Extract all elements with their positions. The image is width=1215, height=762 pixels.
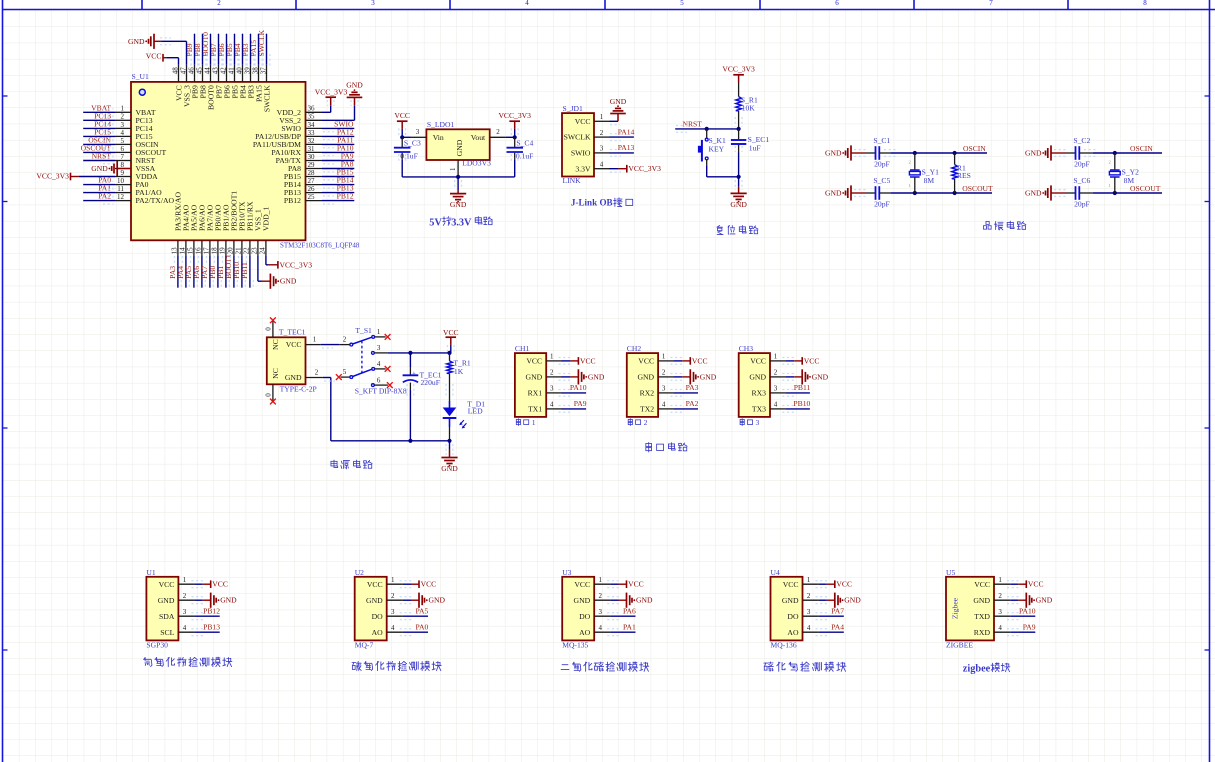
capacitor S_C3 0.1uF [394,128,421,177]
capacitor S_C1 20pF [866,136,896,169]
svg-text:3.3V: 3.3V [451,217,472,228]
svg-text:4: 4 [377,360,381,368]
power VCC at CH1 pin 1 [559,356,596,365]
svg-text:GND: GND [844,596,861,605]
wire + net label PA13 (J-Link pin 3) [610,143,635,156]
svg-text:NC: NC [271,368,280,379]
svg-text:OSCOUT: OSCOUT [1130,184,1161,193]
svg-text:1: 1 [121,105,125,113]
svg-text:S_C4: S_C4 [516,138,533,147]
wire + net label PA9 at CH1 pin 4 [559,399,587,412]
module U3 body (MQ-135) [562,577,594,641]
MCU pin 9 (VDDA) left [115,169,158,181]
J-Link pin 2 SWCLK [564,129,610,142]
wire + net label VBAT (MCU left pin 1) [83,103,115,115]
power VCC_3V3 at MCU pin 36 VDD_2 [315,88,348,113]
wire + net label PB1 (MCU bottom) [216,256,229,288]
svg-text:6: 6 [377,376,381,384]
MCU pin PB10/TX bottom [235,201,247,256]
svg-text:4: 4 [599,624,603,632]
power VCC_3V3 above R1 (reset) [722,65,755,97]
U2 pin 3 DO [372,608,403,621]
power VCC_3V3 at MCU pin 24 VDD_1 [266,256,312,269]
MCU pin 5 (OSCIN) left [115,137,159,149]
title reset circuit [717,225,758,234]
svg-text:U5: U5 [946,568,955,577]
svg-text:TXD: TXD [974,612,990,621]
MCU pin 6 (OSCOUT) left [115,145,167,157]
svg-text:U4: U4 [771,568,780,577]
svg-text:VCC: VCC [575,117,591,126]
wire + net label PB13 at U1 pin 4 [191,623,220,636]
svg-text:DO: DO [787,612,799,621]
svg-text:3: 3 [371,0,375,7]
svg-text:GND: GND [610,97,627,106]
svg-text:19: 19 [219,247,227,255]
svg-text:20pF: 20pF [1074,200,1090,209]
svg-text:GND: GND [1025,149,1042,158]
svg-text:S_KFT DIP-8X8: S_KFT DIP-8X8 [355,387,407,396]
svg-text:3: 3 [377,344,381,352]
svg-text:VCC_3V3: VCC_3V3 [36,171,69,180]
svg-text:13: 13 [171,247,179,255]
svg-text:4: 4 [600,161,604,169]
wire + net label PA0 (MCU left pin 10) [83,176,115,188]
svg-text:1: 1 [774,353,778,361]
svg-text:DO: DO [579,612,591,621]
crystal circuit 2: ground GND left of S_C2 [1025,145,1066,160]
MCU pin 7 (NRST) left [115,153,155,165]
MCU pin PB6 top [219,65,231,99]
svg-text:1uF: 1uF [749,143,761,152]
wire + net label PA10 at U5 pin 3 [1007,607,1036,620]
svg-text:1: 1 [550,353,554,361]
svg-text:1: 1 [391,576,395,584]
svg-text:20pF: 20pF [1074,160,1090,169]
svg-text:3: 3 [662,385,666,393]
svg-text:GND: GND [91,164,108,173]
svg-text:41: 41 [227,67,235,75]
MCU pin PB14 right [284,177,322,189]
title crystal circuit [983,221,1025,230]
wire + net label PA6 (MCU bottom) [192,256,205,288]
U4 pin 4 AO [787,624,818,637]
wire + net label NRST (MCU left pin 7) [83,152,115,164]
svg-text:3: 3 [391,608,395,616]
MCU pin 8 (VSSA) left [115,161,156,173]
wire + net label PB4 (MCU top) [233,34,246,66]
power VCC at CH3 pin 1 [782,356,819,365]
title H2S detection module [764,662,846,671]
wire + net label PA15 (MCU top) [249,34,262,66]
wire + net label PA1 (MCU left pin 11) [83,184,115,196]
wire + net label PA4 at U4 pin 4 [816,623,845,636]
svg-text:PB10: PB10 [793,399,810,408]
svg-text:GND: GND [730,200,747,209]
svg-text:20pF: 20pF [874,160,890,169]
ground GND at U5 pin 2 [1007,593,1053,608]
svg-text:TX3: TX3 [752,405,766,414]
svg-text:2: 2 [343,336,347,344]
wire OSCOUT net [890,191,992,195]
ground GND below reset [730,175,747,209]
U4 pin 1 VCC [783,576,819,589]
svg-text:zigbee: zigbee [963,663,991,674]
svg-text:GND: GND [812,372,829,381]
wire + net label PB5 (MCU top) [225,34,238,66]
ground GND at CH3 pin 2 [782,369,828,384]
ground GND at U1 pin 2 [191,593,237,608]
MCU pin 4 (PC15) left [115,129,153,141]
push button S_K1 KEY [698,129,739,177]
svg-text:LINK: LINK [563,176,582,185]
svg-text:VCC: VCC [836,580,852,589]
svg-text:PA5: PA5 [415,607,428,616]
svg-text:PA2/TX/AO: PA2/TX/AO [136,196,175,205]
wire + net label PA6 at U3 pin 3 [607,607,636,620]
svg-text:SWIO: SWIO [571,149,591,158]
svg-text:1: 1 [998,576,1002,584]
CH3 pin 1 VCC [750,353,785,366]
svg-text:2: 2 [662,369,666,377]
svg-text:3: 3 [774,385,778,393]
wire + net label PB7 (MCU top) [209,34,222,66]
svg-text:PB12: PB12 [284,196,301,205]
wire Vout node [506,135,517,139]
svg-text:1: 1 [183,576,187,584]
svg-text:TX1: TX1 [528,405,542,414]
MCU pin PB5 top [227,65,239,99]
svg-text:T_S1: T_S1 [355,326,372,335]
svg-text:3: 3 [600,145,604,153]
wire LDO ground rail [402,175,515,191]
svg-text:47: 47 [179,67,187,75]
wire + net label PC13 (MCU left pin 2) [83,111,115,123]
svg-text:+: + [412,370,416,377]
svg-text:2: 2 [496,128,500,136]
svg-text:PA3: PA3 [686,383,699,392]
MCU pin PA10/RX right [271,145,322,157]
svg-text:36: 36 [308,105,316,113]
svg-text:11: 11 [117,185,124,193]
svg-text:2: 2 [998,592,1002,600]
svg-text:GND: GND [700,372,717,381]
svg-text:TX2: TX2 [640,405,654,414]
svg-text:VCC: VCC [580,356,596,365]
wire + net label PB11 (MCU bottom) [240,256,253,288]
svg-text:20pF: 20pF [874,200,890,209]
svg-text:4: 4 [662,401,666,409]
svg-text:17: 17 [203,247,211,255]
U1 pin 4 SCL [160,624,194,637]
power VCC above T_R1 [443,328,459,353]
wire TEC1 VCC to switch [321,345,339,348]
svg-text:VCC: VCC [443,328,459,337]
svg-text:44: 44 [203,67,211,75]
MCU pin PA5/AO bottom [187,204,199,256]
svg-text:VCC: VCC [638,357,654,366]
wire + net label PB3 (MCU top) [241,34,254,66]
J-Link pin 1 VCC [575,113,610,126]
svg-text:40: 40 [235,67,243,75]
MCU pin 2 (PC13) left [115,113,153,125]
U3 pin 1 VCC [574,576,610,589]
MCU pin PB3 top [243,65,255,99]
U3 pin 2 GND [574,592,611,605]
svg-text:33: 33 [308,129,316,137]
capacitor S_C6 20pF [1066,176,1093,209]
svg-text:S_C2: S_C2 [1073,136,1090,145]
svg-text:VCC: VCC [146,51,162,60]
svg-text:U3: U3 [562,568,571,577]
svg-text:21: 21 [235,247,243,255]
CH2 pin 4 TX2 [640,401,673,414]
svg-text:VCC: VCC [1028,580,1044,589]
U5 pin 4 RXD [974,624,1010,637]
wire + net label PB15 (MCU right) [322,168,354,180]
MCU pin PB12 right [284,193,322,205]
MCU pin PB7 top [211,65,223,99]
svg-text:VCC: VCC [628,580,644,589]
crystal S_Y1 8M [909,153,940,193]
MCU pin PA6/AO bottom [195,204,207,256]
svg-text:3: 3 [183,608,187,616]
MCU pin 1 (VBAT) left [115,105,156,117]
svg-text:GND: GND [526,373,543,382]
svg-text:VCC_3V3: VCC_3V3 [280,260,313,269]
svg-text:RXD: RXD [974,628,991,637]
svg-text:S_C5: S_C5 [873,176,890,185]
svg-text:PA7: PA7 [831,607,844,616]
svg-text:6: 6 [121,145,125,153]
ground GND at U3 pin 2 [607,593,653,608]
wire + net label PB13 (MCU right) [322,184,354,196]
U2 pin 4 AO [372,624,403,637]
wire + net label OSCOUT (MCU left pin 6) [81,144,115,156]
svg-text:3: 3 [599,608,603,616]
svg-text:PA1: PA1 [623,623,636,632]
svg-text:8M: 8M [1124,176,1135,185]
MCU pin PA15 top [251,65,263,102]
power VCC at U1 pin 1 [191,580,228,589]
svg-text:SWCLK: SWCLK [257,29,266,56]
wire VCC node to Vin [400,135,410,139]
svg-text:43: 43 [211,67,219,75]
svg-text:VCC: VCC [783,580,799,589]
svg-text:4: 4 [183,624,187,632]
CH2 pin 3 RX2 [640,385,674,398]
svg-text:4: 4 [121,129,125,137]
TEC1 bottom pin 0 no-connect [264,384,276,404]
svg-text:PA13: PA13 [618,143,635,152]
svg-text:VDD_1: VDD_1 [262,207,271,231]
svg-text:VCC: VCC [286,340,302,349]
svg-text:32: 32 [308,137,316,145]
LDO pin 3 Vin [411,128,427,137]
MCU pin 10 (PA0) left [115,177,149,189]
svg-text:GND: GND [825,189,842,198]
svg-text:1: 1 [600,113,604,121]
wire + net label SWCLK (MCU top) [257,29,270,66]
svg-text:GND: GND [973,596,990,605]
wire + net label SWIO (MCU right) [322,120,354,132]
ground GND at MCU pin 8 VSSA [91,161,131,176]
TEC1 pin 1 VCC [306,336,321,345]
svg-text:12: 12 [117,193,125,201]
ground GND at MCU pin 35 VSS_2 [322,81,363,121]
svg-text:18: 18 [211,247,219,255]
svg-text:GND: GND [429,596,446,605]
serial connector CH2 body [627,353,658,417]
MCU pin VCC top [171,65,183,101]
svg-text:8: 8 [121,161,125,169]
svg-text:7: 7 [989,0,993,7]
svg-text:SWCLK: SWCLK [262,85,271,112]
svg-text:KEY: KEY [709,144,725,153]
svg-text:34: 34 [308,121,316,129]
svg-text:38: 38 [251,67,259,75]
svg-text:GND: GND [1025,189,1042,198]
MCU pin PA9/TX right [276,153,322,165]
label CH1 (Chinese) [516,418,535,427]
svg-text:LED: LED [468,407,483,416]
svg-text:37: 37 [259,67,267,75]
power VCC at MCU pin 48 [146,51,179,64]
module U2 body (MQ-7) [355,577,387,641]
capacitor S_C4 0.1uF [507,128,534,177]
module U1 body (SGP30) [146,577,178,641]
label CH3 (Chinese) [740,418,759,427]
svg-text:GND: GND [128,37,145,46]
power VCC_3V3 above C4 [498,111,531,137]
svg-text:PB12: PB12 [203,607,220,616]
MCU pin PB15 right [284,169,322,181]
svg-text:RES: RES [957,171,971,180]
svg-text:46: 46 [187,67,195,75]
MCU pin 11 (PA1/AO) left [115,185,162,197]
svg-text:3: 3 [121,121,125,129]
MCU pin 12 (PA2/TX/AO) left [115,193,175,205]
MCU orientation circle [139,89,145,95]
svg-text:SCL: SCL [160,628,174,637]
U4 pin 2 GND [782,592,819,605]
wire + net label PA14 (J-Link pin 2) [610,127,635,140]
ground GND at CH2 pin 2 [670,369,716,384]
svg-text:16: 16 [195,247,203,255]
power VCC above C3 [394,111,410,137]
TEC1 pin names [271,339,302,382]
U3 pin 4 AO [579,624,610,637]
svg-text:5: 5 [343,368,347,376]
svg-text:STM32F103C8T6_LQFP48: STM32F103C8T6_LQFP48 [280,242,360,250]
svg-text:27: 27 [308,177,316,185]
wire + net label PB10 at CH3 pin 4 [782,399,810,412]
title SO2 detection module [561,662,649,671]
svg-text:4: 4 [550,401,554,409]
svg-text:3: 3 [807,608,811,616]
svg-text:2: 2 [183,592,187,600]
svg-text:LDO3V3: LDO3V3 [462,159,491,168]
svg-text:4: 4 [391,624,395,632]
wire + net label PB8 (MCU top) [193,34,206,66]
ground GND at CH1 pin 2 [559,369,605,384]
ground GND at MCU pin 23 VSS_1 [258,256,297,289]
U2 pin 2 GND [366,592,403,605]
power VCC_3V3 at J-Link pin 4 [610,164,662,173]
svg-text:OSCIN: OSCIN [1130,144,1153,153]
svg-text:4: 4 [774,401,778,409]
wire + net label PA10 (MCU right) [322,144,354,156]
title power circuit [331,460,372,469]
svg-text:2: 2 [807,592,811,600]
svg-text:GND: GND [636,596,653,605]
svg-text:VCC: VCC [394,111,410,120]
svg-text:PB13: PB13 [203,623,220,632]
svg-text:48: 48 [171,67,179,75]
TEC1 top pin 0 no-connect [264,317,276,337]
CH1 pin 3 RX1 [528,385,562,398]
wire OSCIN net (crystal 2) [1093,151,1162,155]
wire + net label PA12 (MCU right) [322,128,354,140]
svg-text:PA2: PA2 [686,399,699,408]
wire + net label PA5 at U2 pin 3 [400,607,429,620]
MCU pin VDD_2 right [277,105,322,117]
label CH2 (Chinese) [628,418,647,427]
svg-text:PB11: PB11 [240,262,249,279]
svg-text:4: 4 [807,624,811,632]
svg-text:CH1: CH1 [515,344,530,353]
svg-text:9: 9 [121,169,125,177]
svg-text:39: 39 [243,67,251,74]
svg-text:8: 8 [1143,0,1147,7]
svg-text:0: 0 [264,327,272,331]
svg-text:S_C6: S_C6 [1073,176,1090,185]
ground GND at U4 pin 2 [816,593,862,608]
svg-text:4: 4 [998,624,1002,632]
svg-text:ZIGBEE: ZIGBEE [946,641,973,650]
MCU pin VSS_2 right [279,113,322,125]
wire switch pin3 to VCC rail [388,351,452,355]
resistor R1 RES (feedback) [952,153,971,193]
wire + net label PA3 at CH2 pin 3 [670,383,698,396]
wire + net label PC15 (MCU left pin 4) [83,128,115,140]
wire + net label PA8 (MCU right) [322,160,354,172]
power VCC at U5 pin 1 [1007,580,1044,589]
MCU pin PA12/USB/DP right [255,129,322,141]
MCU pin VDD_1 bottom [259,207,271,256]
ground GND at J-Link pin 1 [610,97,627,125]
wire + net label PB12 (MCU right) [322,192,354,204]
svg-text:2: 2 [121,113,125,121]
svg-text:NC: NC [271,339,280,350]
MCU pin VSS_3 top [179,65,191,107]
wire TEC1 GND to bottom rail [323,378,450,441]
svg-text:AO: AO [579,628,591,637]
svg-text:AO: AO [787,628,799,637]
svg-text:1: 1 [599,576,603,584]
capacitor T_EC1 220uF electrolytic [403,353,442,441]
svg-text:GND: GND [749,373,766,382]
svg-text:PA0: PA0 [415,623,428,632]
ground GND left of S_C6 [1025,185,1066,200]
power VCC at U3 pin 1 [607,580,644,589]
wire + net label PA0 at U2 pin 4 [400,623,429,636]
svg-text:Vin: Vin [433,133,444,142]
svg-text:VCC: VCC [974,580,990,589]
power VCC at U2 pin 1 [400,580,437,589]
wire + net label PA9 (MCU right) [322,152,354,164]
svg-text:Vout: Vout [471,133,486,142]
